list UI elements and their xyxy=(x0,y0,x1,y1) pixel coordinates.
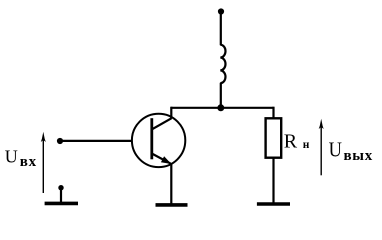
svg-text:U: U xyxy=(5,147,18,167)
node: supply terminal dot (top) xyxy=(218,8,224,14)
svg-text:U: U xyxy=(329,139,342,162)
ground: input ground bar xyxy=(45,202,78,206)
node: input terminal dot xyxy=(57,138,63,144)
wire: collector drop from rail into transistor xyxy=(170,107,172,119)
arrow: U_vx input voltage arrow (up) xyxy=(42,136,44,193)
ground: resistor ground bar xyxy=(257,202,290,206)
wire: resistor bottom to ground xyxy=(272,158,274,203)
wire: emitter down to ground xyxy=(170,164,172,204)
svg-text:R: R xyxy=(284,131,298,153)
wire: base wire from input terminal to Q1 xyxy=(60,140,132,142)
wire: inductor bottom to junction xyxy=(220,83,222,108)
svg-text:вх: вх xyxy=(20,154,37,170)
transistor Q1 emitter stroke xyxy=(152,154,171,164)
transistor Q1 (NPN, circle envelope) xyxy=(132,114,185,167)
wire: rail corner down to resistor top xyxy=(272,107,274,119)
wire: supply dot to inductor top xyxy=(220,13,222,45)
arrow: U_vyx output voltage arrow (up) xyxy=(320,124,322,176)
transistor Q1 emitter arrowhead xyxy=(161,156,172,164)
resistor R_H (load) xyxy=(266,118,282,157)
node: junction dot at collector rail xyxy=(217,104,224,111)
wire: terminal dot stem xyxy=(60,188,62,202)
inductor L1 (collector choke, 3 loops) xyxy=(220,45,225,84)
node: lower-left open terminal dot xyxy=(58,185,63,190)
ground: emitter ground bar xyxy=(156,203,188,207)
transistor Q1 collector stroke xyxy=(152,118,172,129)
transistor Q1 base bar xyxy=(150,118,153,159)
svg-text:н: н xyxy=(303,139,310,151)
wire: horizontal collector rail (collector corner to resistor corner) xyxy=(171,107,273,109)
svg-text:вых: вых xyxy=(344,148,373,164)
